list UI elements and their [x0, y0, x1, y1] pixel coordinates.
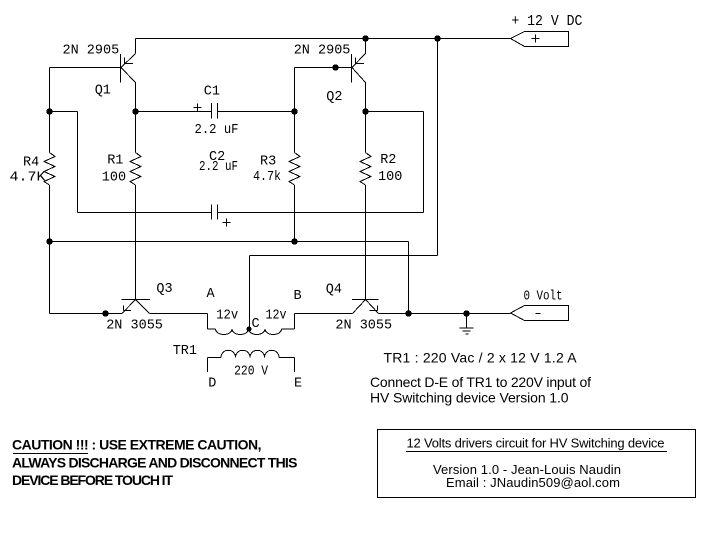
connector tag +12V DC [511, 32, 569, 47]
node junction center tap C [247, 327, 252, 332]
wire R2 bottom to Q4 base [365, 185, 367, 300]
svg-text:12 Volts drivers circuit for H: 12 Volts drivers circuit for HV Switchin… [407, 436, 665, 451]
svg-text:R2: R2 [380, 153, 396, 168]
ground symbol [460, 314, 474, 335]
wire Q1 base to node [50, 67, 121, 69]
svg-text:A: A [207, 287, 216, 302]
wire Q1 emitter vertical to +12V rail [135, 39, 137, 54]
svg-text:2N 2905: 2N 2905 [294, 44, 351, 59]
wire vertical x=294 Q2 base down to C1 [294, 68, 296, 112]
svg-text:4.7K: 4.7K [10, 171, 47, 186]
wire R3 bottom to bias rail [294, 185, 296, 242]
connector tag 0 Volt [511, 306, 569, 321]
capacitor C2 left wire [78, 212, 212, 214]
svg-text:Connect D-E of TR1 to 220V inp: Connect D-E of TR1 to 220V input of [370, 374, 591, 390]
node junction ground on 0V [463, 310, 469, 316]
wire Q1 collector vertical [135, 83, 137, 153]
wire transformer primary left step down [207, 314, 209, 330]
svg-text:12v: 12v [266, 309, 287, 324]
wire R4 bottom to 0V corner [49, 185, 51, 314]
svg-text:D: D [208, 377, 216, 392]
node junction +12V rail / tag branch [434, 35, 440, 41]
svg-text:C: C [252, 317, 260, 332]
svg-text:100: 100 [378, 170, 402, 185]
capacitor C2 plates [212, 205, 218, 220]
capacitor C1 polarity plus sign [194, 104, 202, 112]
transformer TR1 secondary winding 220V [208, 350, 295, 372]
resistor R3 4.7k zigzag [289, 153, 300, 186]
svg-text:DEVICE BEFORE TOUCH IT: DEVICE BEFORE TOUCH IT [12, 472, 173, 488]
resistor R1 100 zigzag [130, 153, 141, 186]
plus sign inside +12V tag [532, 35, 540, 43]
node junction Q1 collector / C1 / R1 [132, 108, 138, 114]
node junction on Q2 base wire [332, 64, 338, 70]
title underline [406, 451, 667, 453]
capacitor C2 polarity plus sign [223, 219, 231, 227]
wire primary right stub [282, 328, 295, 330]
svg-text:Q2: Q2 [326, 90, 342, 105]
node junction Q2 collector / R2 / C2 branch [362, 108, 368, 114]
svg-text:Q3: Q3 [156, 282, 172, 297]
svg-text:R3: R3 [260, 155, 276, 170]
capacitor C1 plates [212, 103, 218, 119]
wire vertical x=423 down to C2 right [423, 112, 425, 213]
svg-text:B: B [294, 289, 302, 304]
wire Q2 collector vertical [365, 83, 367, 153]
svg-text:E: E [294, 377, 302, 392]
wire 0V rail left segment [50, 313, 123, 315]
wire 0V rail between transformer and Q4 [295, 313, 353, 315]
wire left vertical x=49 base node down [49, 68, 51, 153]
node junction R4 / bias rail [46, 238, 52, 244]
svg-text:CAUTION !!! : USE EXTREME CAUT: CAUTION !!! : USE EXTREME CAUTION, [12, 437, 261, 453]
transistor Q1 2N2905 PNP [121, 54, 136, 83]
transformer TR1 primary winding A side 12v [216, 329, 249, 335]
svg-text:0 Volt: 0 Volt [524, 290, 563, 305]
capacitor C1 left wire [136, 111, 212, 113]
svg-text:Email : JNaudin509@aol.com: Email : JNaudin509@aol.com [446, 475, 620, 490]
wire vertical x=77 down to C2 [77, 112, 79, 213]
wire Q2 emitter vertical to +12V rail [365, 39, 367, 54]
wire +12V top rail [136, 38, 511, 40]
svg-text:Q4: Q4 [326, 283, 342, 298]
wire center-tap vertical x=249 [249, 256, 251, 330]
svg-text:2.2 uF: 2.2 uF [195, 123, 239, 138]
node junction Q2 emitter on +12V rail [362, 35, 368, 41]
node junction Q1 base / R4 top [46, 108, 52, 114]
node junction R3 bottom on bias rail [291, 238, 297, 244]
resistor R3 top wire [294, 112, 296, 153]
wire R1 bottom to Q3 base [135, 185, 137, 300]
transistor Q4 2N3055 NPN [352, 300, 379, 314]
wire vertical x=408 bias rail to 0V [408, 242, 410, 314]
wire 0V rail right segment [379, 313, 511, 315]
resistor R2 100 zigzag [360, 153, 371, 186]
svg-text:2.2 uF: 2.2 uF [199, 160, 238, 175]
title box border [378, 430, 696, 498]
caution underline [13, 453, 88, 455]
svg-text:2N 3055: 2N 3055 [335, 319, 392, 334]
svg-text:ALWAYS DISCHARGE AND DISCONNEC: ALWAYS DISCHARGE AND DISCONNECT THIS [12, 455, 297, 471]
svg-text:12v: 12v [216, 309, 238, 324]
wire transformer primary right step up [294, 314, 296, 330]
svg-text:R4: R4 [23, 156, 39, 171]
resistor R4 4.7K zigzag [44, 153, 55, 186]
svg-text:R1: R1 [107, 154, 123, 169]
svg-text:2N 2905: 2N 2905 [63, 44, 120, 59]
wire bias rail R4/R3 bottoms [50, 241, 409, 243]
node junction bias rail return on 0V [405, 310, 411, 316]
wire branch node to C2 left [50, 111, 78, 113]
svg-text:+ 12 V DC: + 12 V DC [511, 13, 582, 30]
transistor Q3 2N3055 NPN [122, 300, 151, 314]
transformer TR1 primary winding B side 12v [249, 329, 282, 335]
svg-text:HV Switching device Version 1.: HV Switching device Version 1.0 [370, 390, 569, 406]
svg-text:4.7k: 4.7k [253, 170, 281, 185]
wire primary left stub [208, 328, 216, 330]
wire Q2 base left [295, 67, 352, 69]
svg-text:Q1: Q1 [95, 84, 111, 99]
svg-text:220 V: 220 V [234, 365, 269, 380]
node junction C1 right / R3 top / Q2 base [291, 108, 297, 114]
wire +12V rail vertical x=437 [437, 39, 439, 256]
svg-text:100: 100 [102, 171, 126, 186]
svg-text:TR1 : 220 Vac / 2 x 12 V 1.2 A: TR1 : 220 Vac / 2 x 12 V 1.2 A [384, 350, 578, 366]
capacitor C2 right wire [218, 212, 424, 214]
wire +12V feed horizontal y=255 [250, 255, 438, 257]
svg-text:2N 3055: 2N 3055 [106, 319, 163, 334]
svg-text:TR1: TR1 [173, 344, 197, 359]
svg-text:C1: C1 [204, 85, 220, 100]
wire 0V rail Q3 collector to transformer [150, 313, 208, 315]
minus sign inside 0V tag [536, 313, 541, 315]
node junction on 0V rail left of Q3 [102, 310, 108, 316]
transistor Q2 2N2905 PNP [352, 54, 366, 83]
wire Q2 collector node to x=423 [366, 111, 424, 113]
capacitor C1 right wire [218, 111, 295, 113]
